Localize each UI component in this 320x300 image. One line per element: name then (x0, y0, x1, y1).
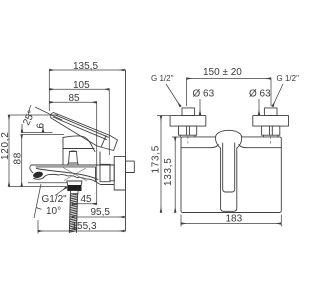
svg-text:6: 6 (36, 123, 47, 129)
spout outlet piece (67, 181, 82, 186)
wall stub (126, 161, 135, 172)
svg-text:Ø 63: Ø 63 (249, 89, 271, 100)
dim 6 (21, 123, 53, 133)
dim 45 (72, 194, 97, 205)
hose collar (71, 191, 78, 194)
svg-text:G 1/2": G 1/2" (151, 74, 174, 83)
svg-text:G 1/2": G 1/2" (277, 74, 300, 83)
svg-text:133,5: 133,5 (163, 157, 174, 186)
right inlet stub (264, 108, 277, 116)
right inlet column (263, 135, 278, 137)
svg-text:Ø 63: Ø 63 (193, 89, 215, 100)
dim 120,2 (0, 115, 66, 187)
dim 150 +/- 20 (187, 67, 272, 106)
dim 155,3 (38, 220, 125, 234)
left centerline (187, 136, 189, 145)
left flange (170, 116, 206, 127)
svg-text:183: 183 (226, 214, 243, 225)
dim 135,5 (49, 61, 124, 111)
left nut (179, 126, 197, 135)
dim 173,5 (151, 116, 171, 213)
dim 25 deg (9, 105, 62, 127)
svg-text:155,3: 155,3 (72, 221, 97, 232)
dim 88 (13, 135, 65, 187)
handle (front view) (216, 130, 242, 211)
svg-text:10°: 10° (46, 206, 61, 217)
label dia 63 left (193, 89, 215, 116)
wall line (125, 70, 127, 231)
left inlet stub (182, 108, 195, 116)
wall flange (side view) (114, 156, 125, 190)
svg-text:G1/2": G1/2" (42, 194, 68, 205)
svg-text:95,5: 95,5 (91, 207, 111, 218)
dim 105 (49, 80, 109, 155)
dim 85 (49, 93, 96, 204)
dim 183 (181, 214, 281, 227)
label G 1/2 left (151, 74, 181, 107)
spout (side view) (30, 165, 114, 185)
spout nose underside (34, 178, 45, 180)
right nut (262, 126, 280, 135)
lever handle (side view) (51, 113, 118, 151)
body rear connector (100, 152, 114, 182)
svg-text:150 ± 20: 150 ± 20 (203, 67, 242, 78)
shower hose (69, 194, 77, 233)
svg-text:173,5: 173,5 (151, 145, 162, 174)
label G1/2 (side) (42, 187, 68, 205)
dim 10 deg (28, 183, 67, 218)
label dia 63 right (249, 89, 271, 116)
aerator (32, 171, 43, 179)
right centerline (270, 136, 272, 145)
svg-text:45: 45 (81, 194, 93, 205)
dim 95,5 (72, 207, 125, 218)
cartridge dome (side view) (63, 136, 100, 165)
dim 133,5 (163, 137, 181, 213)
diverter knob (68, 151, 79, 165)
right flange (253, 116, 289, 127)
body (front view) (181, 137, 281, 213)
hose nut (68, 186, 81, 191)
label G 1/2 right (273, 74, 300, 107)
left inlet column (180, 135, 195, 137)
